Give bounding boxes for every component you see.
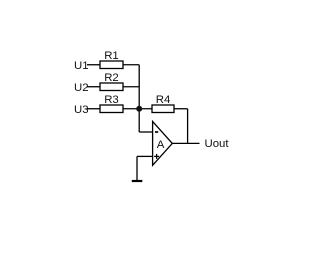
svg-text:R2: R2 <box>104 72 119 84</box>
svg-text:A: A <box>157 139 165 151</box>
wire noninverting input <box>137 155 153 157</box>
wire U1 to R1 <box>87 64 100 66</box>
svg-text:Uout: Uout <box>205 138 230 150</box>
wire U2 to R2 <box>87 86 100 88</box>
pin plus <box>154 155 159 157</box>
wire summing bus vertical <box>138 65 140 132</box>
ground <box>132 180 143 182</box>
wire R2 to bus <box>123 86 139 88</box>
wire bus to inverting input <box>139 131 152 133</box>
svg-text:R3: R3 <box>104 94 119 106</box>
pin minus <box>155 131 158 133</box>
wire R4 to feedback corner <box>174 108 188 110</box>
svg-text:U1: U1 <box>74 60 89 72</box>
wire R1 to bus <box>123 64 139 66</box>
wire output <box>172 142 199 144</box>
svg-text:R1: R1 <box>104 50 119 62</box>
op-amp A triangle <box>153 122 173 166</box>
resistor R4 <box>152 105 174 113</box>
svg-text:U2: U2 <box>74 82 89 94</box>
wire R3 to junction and R4 <box>123 108 152 110</box>
resistor R2 <box>100 83 123 91</box>
wire feedback vertical <box>187 109 189 144</box>
resistor R3 <box>100 105 123 113</box>
resistor R1 <box>100 61 123 69</box>
svg-text:R4: R4 <box>156 94 171 106</box>
wire to ground <box>136 156 138 181</box>
svg-text:U3: U3 <box>74 104 89 116</box>
wire U3 to R3 <box>87 108 100 110</box>
junction dot node S <box>136 106 142 112</box>
